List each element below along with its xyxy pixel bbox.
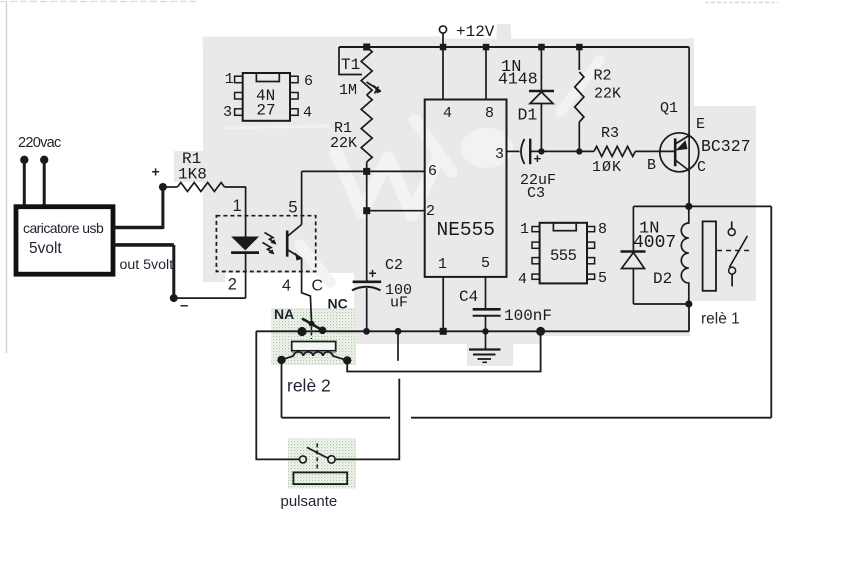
svg-text:3: 3 bbox=[223, 104, 232, 121]
junction R2 top bbox=[576, 44, 583, 51]
svg-text:4: 4 bbox=[303, 105, 312, 122]
resistor R1 22K bbox=[330, 95, 372, 171]
capacitor C4 100nF bbox=[459, 288, 552, 331]
svg-text:+: + bbox=[369, 268, 377, 283]
svg-text:6: 6 bbox=[428, 163, 437, 180]
relay 2 switch C contact bbox=[309, 321, 315, 327]
wire pin6 line bbox=[302, 170, 425, 172]
junction R2 bottom bbox=[576, 148, 582, 154]
IC 555 DIP package bbox=[518, 221, 607, 288]
relay 1 coil bbox=[681, 206, 688, 304]
svg-text:1M: 1M bbox=[339, 82, 357, 99]
switch pulsante bbox=[293, 443, 347, 484]
svg-text:5: 5 bbox=[598, 270, 607, 287]
svg-text:22K: 22K bbox=[594, 86, 621, 103]
junction C4/rail bbox=[482, 328, 488, 334]
trimmer T1 1M bbox=[339, 47, 382, 99]
svg-text:4: 4 bbox=[518, 271, 527, 288]
junction D1/C3 bbox=[538, 148, 544, 154]
wire opto pin5 riser bbox=[301, 171, 303, 224]
svg-text:1: 1 bbox=[233, 197, 242, 215]
svg-text:5: 5 bbox=[481, 255, 490, 272]
relay 2 switch NC contact bbox=[319, 327, 327, 335]
wire pin4 bbox=[442, 47, 444, 100]
svg-text:27: 27 bbox=[256, 101, 275, 119]
wire Q1 collector down bbox=[688, 171, 690, 206]
svg-text:–: – bbox=[180, 297, 188, 314]
svg-text:6: 6 bbox=[304, 73, 313, 90]
svg-text:C4: C4 bbox=[459, 288, 478, 306]
node 220vac bbox=[18, 135, 61, 164]
junction relay2 link/rail bbox=[536, 327, 545, 336]
wire 0V output bbox=[113, 245, 174, 298]
svg-text:uF: uF bbox=[390, 295, 408, 312]
svg-text:5: 5 bbox=[288, 198, 297, 216]
junction D1 top bbox=[538, 44, 545, 51]
svg-text:E: E bbox=[696, 116, 705, 133]
svg-text:C2: C2 bbox=[385, 257, 403, 274]
svg-text:1: 1 bbox=[438, 256, 447, 273]
wire relay2 coil right to ground rail bbox=[347, 331, 540, 371]
svg-text:caricatore usb: caricatore usb bbox=[23, 220, 104, 236]
transistor Q1 BC327 bbox=[647, 100, 751, 176]
relay 2 switch blade bbox=[302, 319, 323, 340]
svg-text:C: C bbox=[697, 159, 706, 176]
svg-text:C: C bbox=[312, 277, 324, 294]
svg-text:1ØK: 1ØK bbox=[592, 159, 622, 176]
relay 1 body bbox=[703, 221, 716, 290]
wire collector node left/right bbox=[633, 205, 771, 207]
relay 2 switch NA contact bbox=[297, 327, 306, 336]
op-amp U1 NE555 (timer IC) bbox=[425, 100, 507, 277]
wire Q1 emitter to rail bbox=[688, 47, 690, 134]
svg-text:8: 8 bbox=[598, 221, 607, 238]
ground bbox=[469, 331, 501, 362]
optocoupler 4N27 dotted box bbox=[216, 216, 315, 272]
phototransistor opto detector bbox=[263, 225, 303, 261]
svg-text:R2: R2 bbox=[594, 68, 612, 85]
wire relay1 switch to relay2 coil (outer loop) bbox=[282, 206, 772, 417]
svg-text:100nF: 100nF bbox=[504, 307, 552, 325]
junction T1 top bbox=[363, 44, 370, 51]
svg-text:22K: 22K bbox=[330, 135, 357, 152]
wire pulsante left bbox=[256, 331, 299, 459]
resistor R3 10K bbox=[592, 125, 674, 176]
diode D2 1N4007 bbox=[621, 206, 689, 304]
wire 220vac leads bbox=[24, 160, 44, 205]
wire +12V rail bbox=[339, 46, 689, 48]
relay 1 switch bbox=[717, 221, 750, 286]
svg-text:2: 2 bbox=[426, 203, 435, 220]
svg-text:1K8: 1K8 bbox=[178, 166, 207, 184]
svg-text:R3: R3 bbox=[601, 125, 619, 142]
svg-text:B: B bbox=[647, 157, 656, 174]
svg-text:4: 4 bbox=[443, 105, 452, 122]
svg-text:3: 3 bbox=[495, 146, 504, 163]
svg-text:pulsante: pulsante bbox=[281, 493, 338, 510]
junction pin1/rail bbox=[440, 328, 447, 335]
wire ground rail bbox=[256, 304, 689, 331]
svg-text:T1: T1 bbox=[341, 56, 360, 74]
svg-text:8: 8 bbox=[485, 105, 494, 122]
resistor R1 1K8 bbox=[163, 150, 246, 192]
svg-text:Q1: Q1 bbox=[660, 100, 678, 117]
svg-text:1: 1 bbox=[225, 71, 234, 88]
svg-text:D2: D2 bbox=[653, 270, 672, 288]
junction pin8 riser bbox=[483, 44, 490, 51]
junction collector node bbox=[685, 203, 692, 210]
wire pulsante riser stub bbox=[397, 331, 399, 361]
svg-text:4148: 4148 bbox=[498, 70, 538, 89]
junction pulsante stub bbox=[395, 328, 402, 335]
wire pulsante right riser bbox=[335, 379, 399, 460]
svg-text:4007: 4007 bbox=[633, 233, 676, 253]
svg-text:220vac: 220vac bbox=[18, 135, 61, 151]
resistor R2 22K bbox=[575, 47, 621, 151]
svg-text:relè 1: relè 1 bbox=[701, 311, 740, 328]
wire opto pin2 bbox=[245, 253, 247, 299]
wire opto pin1 bbox=[245, 187, 247, 237]
svg-text:out 5volt: out 5volt bbox=[120, 257, 174, 273]
svg-text:2: 2 bbox=[228, 275, 237, 293]
svg-text:NC: NC bbox=[328, 296, 348, 312]
wire pin2 line bbox=[367, 210, 425, 212]
svg-text:relè 2: relè 2 bbox=[287, 376, 331, 396]
relay 2 body bbox=[292, 342, 336, 353]
svg-text:+12V: +12V bbox=[456, 23, 495, 41]
capacitor C3 22uF bbox=[507, 139, 557, 202]
capacitor C2 100uF bbox=[352, 257, 412, 331]
node + bbox=[152, 164, 167, 192]
svg-text:C3: C3 bbox=[527, 185, 545, 202]
svg-text:4: 4 bbox=[282, 277, 291, 294]
junction pin4 riser bbox=[440, 44, 447, 51]
relay 2 coil bbox=[282, 352, 348, 361]
svg-text:D1: D1 bbox=[518, 106, 538, 125]
wire - to opto pin2 bbox=[174, 297, 246, 299]
svg-text:5volt: 5volt bbox=[29, 240, 62, 257]
svg-text:555: 555 bbox=[550, 247, 577, 265]
wire R1 junction down to C2 bbox=[366, 171, 368, 281]
junction pin6/R1 bbox=[363, 168, 370, 175]
junction pin2 bbox=[363, 207, 370, 214]
svg-text:1: 1 bbox=[520, 221, 529, 238]
power supply caricatore usb 5volt bbox=[16, 207, 113, 275]
wire pin8 bbox=[485, 47, 487, 100]
wire opto emitter to relay2 C bbox=[302, 258, 312, 323]
svg-text:+: + bbox=[152, 164, 160, 180]
wire pin3 node line bbox=[541, 150, 594, 152]
IC 4N27 DIP package bbox=[223, 71, 313, 122]
svg-text:NE555: NE555 bbox=[437, 219, 496, 241]
junction D2/coil bottom bbox=[685, 300, 692, 307]
relay 2 coil right terminal bbox=[343, 356, 351, 364]
junction C2/rail bbox=[363, 328, 370, 335]
diode D1 1N4148 bbox=[498, 47, 554, 151]
node +12V bbox=[439, 23, 494, 47]
wire pin5 down bbox=[485, 277, 487, 308]
wire pin1 down bbox=[442, 277, 444, 331]
wire +5V output bbox=[113, 187, 163, 229]
LED opto emitter bbox=[231, 237, 259, 253]
node - bbox=[170, 294, 189, 314]
svg-text:BC327: BC327 bbox=[701, 137, 751, 156]
svg-text:NA: NA bbox=[274, 306, 294, 322]
relay 2 coil left terminal bbox=[277, 356, 285, 364]
